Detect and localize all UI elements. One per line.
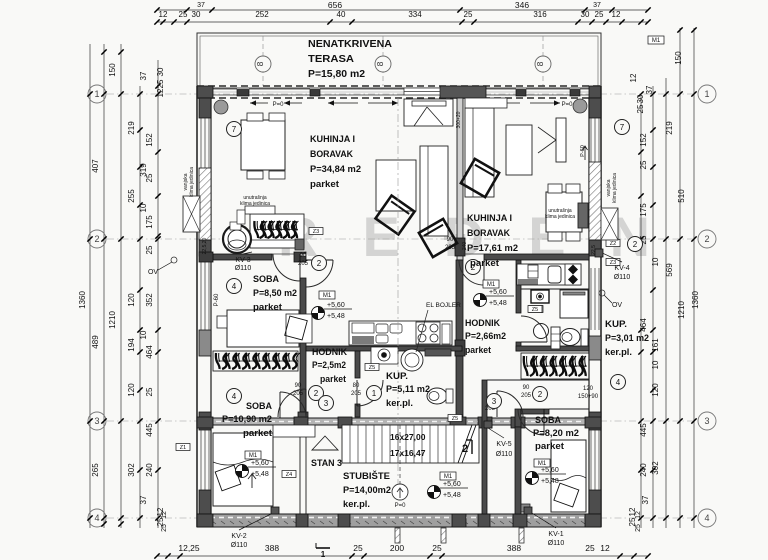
wall x355 kup left [355,351,360,378]
wall y345 left kup top [306,346,462,351]
shower right kup [560,290,588,318]
svg-text:120: 120 [127,383,136,397]
svg-text:EL BOJLER: EL BOJLER [426,302,461,309]
svg-text:656: 656 [328,0,342,10]
svg-text:4: 4 [232,282,237,291]
svg-text:P=8,50 m2: P=8,50 m2 [253,288,297,299]
svg-text:569: 569 [665,263,674,277]
svg-text:P=2,5m2: P=2,5m2 [312,360,346,371]
svg-text:2: 2 [538,390,543,399]
label box M1 [245,451,261,459]
svg-text:25: 25 [179,10,188,19]
svg-text:152: 152 [145,133,154,147]
svg-text:1: 1 [704,89,709,99]
grid bubble right 1 [698,85,716,103]
svg-text:205: 205 [293,391,304,397]
triangle (stan3 mark) [312,436,338,450]
label box M1 [648,36,664,44]
svg-text:P=2,66m2: P=2,66m2 [465,331,506,342]
grid axis dashed lines [107,93,694,95]
dining table left apartment [241,120,285,170]
svg-text:120: 120 [651,383,660,397]
svg-text:219: 219 [127,121,136,135]
door arc hall2 [497,391,523,417]
svg-text:205: 205 [351,391,362,397]
svg-text:30: 30 [581,10,590,19]
svg-text:25: 25 [595,10,604,19]
grid bubble left 1 [88,85,106,103]
armchairs left (rotated dark) [376,196,415,235]
svg-text:25: 25 [156,79,165,88]
wall x516 hodnik east [516,260,521,313]
bottom dimension row [157,555,648,557]
svg-text:ker.pl.: ker.pl. [343,499,370,510]
level marker [312,307,325,320]
svg-text:KUP.: KUP. [386,371,408,382]
svg-text:175: 175 [145,215,154,229]
svg-text:346: 346 [515,0,529,10]
svg-text:STUBIŠTE: STUBIŠTE [343,470,391,482]
section line vertical [397,98,399,423]
svg-text:90: 90 [295,383,302,389]
svg-text:+5,60: +5,60 [443,481,461,488]
washing machine [371,347,398,364]
svg-text:NENATKRIVENA: NENATKRIVENA [308,39,393,50]
svg-text:10: 10 [651,257,660,266]
TV unit left [404,99,453,126]
wall x515 soba west [515,409,521,427]
left dimension ticks [87,91,92,96]
wardrobe squiggle band left [213,351,298,371]
svg-text:90: 90 [300,253,307,259]
svg-text:90: 90 [523,385,530,391]
svg-text:205: 205 [521,393,532,399]
svg-text:25: 25 [639,160,648,169]
coffee table right [506,125,532,175]
svg-text:Ø110: Ø110 [231,542,248,549]
left outer wall [196,86,198,527]
svg-text:80: 80 [353,383,360,389]
svg-text:SOBA: SOBA [246,401,272,412]
grid bubble left 4 [88,509,106,527]
right wall windows [590,118,592,162]
svg-text:445: 445 [639,423,648,437]
svg-text:25: 25 [145,387,154,396]
svg-text:10: 10 [139,330,148,339]
svg-text:30: 30 [636,94,645,103]
TV right with bracket [556,118,566,162]
corner posts round [214,100,228,114]
label box Z4 [282,471,296,478]
svg-text:25: 25 [353,543,363,553]
svg-text:175: 175 [639,203,648,217]
svg-text:+5,60: +5,60 [251,460,269,467]
wall y409 soba top [521,409,549,414]
svg-text:10: 10 [139,203,148,212]
svg-text:510: 510 [677,189,686,203]
section mark 1 [316,547,330,549]
dimension lines: right column [693,28,695,528]
wall x300 (soba/hodnik divider) [300,278,306,412]
svg-text:316: 316 [533,10,547,19]
kitchen counter left (w/ KV-3) [250,214,304,248]
left kitchen row (KUHINJA along kup wall) [349,321,452,345]
svg-text:M1: M1 [487,282,496,288]
svg-text:P=8,20 m2: P=8,20 m2 [533,428,579,439]
svg-text:8: 8 [535,61,545,66]
svg-text:300+20: 300+20 [456,111,462,128]
wall y253 left (under kitchen/living) [213,254,272,260]
svg-text:klima jedinica: klima jedinica [189,167,195,197]
svg-text:P=17,61 m2: P=17,61 m2 [467,243,518,254]
svg-text:12: 12 [612,10,621,19]
grid bubble right 3 [698,412,716,430]
bed right bottom (SOBA 8,20) [551,440,586,512]
svg-text:464: 464 [639,318,648,332]
door arc soba1090 [278,389,306,417]
svg-text:252: 252 [255,10,269,19]
sofa right apartment [465,108,494,197]
armchair right (rotated dark) [461,159,499,197]
svg-text:P=5,11 m2: P=5,11 m2 [386,384,430,395]
label box M1 [319,291,335,299]
wardrobe hangers [524,356,528,376]
dimension lines: left column [89,44,91,528]
svg-text:7: 7 [232,125,237,134]
svg-text:40: 40 [337,10,346,19]
level marker [236,465,249,478]
svg-text:parket: parket [310,179,340,190]
svg-text:150: 150 [108,63,117,77]
label box Z5 [448,415,462,422]
wall y417-427 across [213,418,601,425]
svg-text:Ø110: Ø110 [614,274,631,281]
top dimension row 1 (656 / 346) [157,9,648,11]
svg-text:37: 37 [645,85,654,94]
svg-text:150: 150 [674,51,683,65]
svg-text:4: 4 [232,392,237,401]
svg-text:25: 25 [145,245,154,254]
svg-text:+5,60: +5,60 [541,467,559,474]
grid bubble left 2 [88,230,106,248]
svg-text:KV-3: KV-3 [235,257,250,264]
wall x482 stairs east [482,380,487,514]
level marker [526,472,539,485]
svg-text:Z3: Z3 [313,229,319,235]
svg-text:161: 161 [651,338,660,352]
svg-text:HODNIK: HODNIK [465,318,500,329]
svg-text:8: 8 [255,61,265,66]
door number bubbles [227,122,242,137]
wall y345 right [516,346,589,351]
svg-text:M1: M1 [323,293,332,299]
svg-text:Z1: Z1 [180,445,186,451]
svg-text:3: 3 [324,399,329,408]
stairs walk line [399,425,401,487]
svg-text:M1: M1 [444,474,453,480]
svg-text:194: 194 [127,338,136,352]
svg-text:25: 25 [161,524,168,532]
svg-text:334: 334 [408,10,422,19]
svg-text:STAN 3: STAN 3 [311,458,342,469]
svg-text:OV: OV [148,269,158,276]
svg-text:1: 1 [372,389,377,398]
toilet left kup [427,388,447,404]
svg-text:+5,48: +5,48 [251,471,269,478]
wall y260 right [484,254,589,260]
svg-text:25: 25 [636,104,645,113]
level marker [474,294,487,307]
svg-text:12: 12 [159,10,168,19]
svg-text:200: 200 [390,543,404,553]
svg-text:+5,48: +5,48 [541,478,559,485]
stairs [342,425,479,463]
svg-text:4: 4 [94,513,99,523]
svg-text:388: 388 [265,543,279,553]
svg-text:P=14,00m2: P=14,00m2 [343,485,391,496]
svg-text:KUHINJA I: KUHINJA I [467,213,512,224]
svg-text:parket: parket [470,258,500,269]
label box Z5 [365,364,379,371]
svg-text:1210: 1210 [677,301,686,319]
svg-text:1210: 1210 [108,311,117,329]
right closet squiggle band [521,353,589,379]
door arc kup right [521,316,547,342]
svg-text:KV-2: KV-2 [231,533,246,540]
svg-text:240: 240 [145,463,154,477]
central divider wall [457,98,463,260]
label box Z5 [529,306,543,313]
sill bars below bottom wall [395,528,400,543]
bed left middle (SOBA 8,50) [227,310,299,347]
label box M1 [440,472,456,480]
svg-text:3: 3 [94,416,99,426]
right kup toilet [560,329,580,346]
svg-text:TERASA: TERASA [308,54,355,65]
svg-text:P=34,84 m2: P=34,84 m2 [310,164,361,175]
svg-text:205: 205 [298,261,309,267]
svg-text:25: 25 [464,10,473,19]
KV duct boxes [595,249,603,257]
svg-text:12,25: 12,25 [178,543,200,553]
label box M1 [534,459,550,467]
svg-text:BORAVAK: BORAVAK [310,149,353,160]
svg-text:3: 3 [492,397,497,406]
svg-text:1: 1 [321,550,326,559]
svg-text:ker.pl.: ker.pl. [386,398,413,409]
label box M1 [483,280,499,288]
svg-text:Z2: Z2 [610,241,616,247]
klima unutrasnja left [245,206,275,214]
svg-text:Z5: Z5 [369,365,375,371]
kitchen cabinet [528,265,538,278]
coffee table left [376,160,416,211]
svg-text:25: 25 [635,524,642,532]
svg-text:4: 4 [704,513,709,523]
svg-text:parket: parket [535,441,565,452]
svg-text:klima jedinica: klima jedinica [545,214,575,220]
svg-text:7: 7 [620,123,625,132]
svg-text:+5,60: +5,60 [327,302,345,309]
svg-text:12: 12 [600,543,610,553]
svg-text:+5,48: +5,48 [489,300,507,307]
duct box right bottom [521,504,530,512]
label box Z1 [176,444,190,451]
svg-text:3: 3 [704,416,709,426]
sofa left [420,146,448,236]
svg-text:37: 37 [197,2,205,9]
svg-text:120: 120 [583,386,594,392]
wall y380 right closet bottom [487,379,589,381]
svg-text:25: 25 [432,543,442,553]
svg-text:KV-1: KV-1 [548,531,563,538]
grid bubble right 4 [698,509,716,527]
svg-text:2: 2 [633,240,638,249]
svg-text:37: 37 [139,495,148,504]
KV-3 fixture [223,225,251,253]
svg-text:parket: parket [253,302,283,313]
svg-text:Ø110: Ø110 [235,265,252,272]
svg-text:17x16,47: 17x16,47 [390,448,426,458]
svg-text:P-60: P-60 [214,293,220,306]
top wall windows [213,88,237,90]
svg-text:KUP.: KUP. [605,319,627,330]
door arc hodnik left [306,260,333,287]
right kup cabinet [551,327,560,349]
svg-text:Z5: Z5 [532,307,538,313]
svg-text:302: 302 [651,461,660,475]
top wall slide arrows [250,102,268,104]
svg-text:2: 2 [317,259,322,268]
svg-text:P=0: P=0 [562,102,574,108]
svg-text:12: 12 [161,511,168,519]
svg-text:2: 2 [314,389,319,398]
svg-text:P=3,01 m2: P=3,01 m2 [605,333,649,344]
svg-text:klima jedinica: klima jedinica [612,173,618,203]
svg-text:M1: M1 [249,453,258,459]
svg-text:37: 37 [641,495,650,504]
svg-text:205: 205 [445,245,456,251]
svg-text:407: 407 [91,159,100,173]
svg-text:152: 152 [639,133,648,147]
grid bubble left 3 [88,412,106,430]
svg-text:352: 352 [145,293,154,307]
svg-text:37: 37 [139,71,148,80]
svg-text:P=10,90 m2: P=10,90 m2 [222,414,272,425]
label box Z3 [606,259,620,266]
svg-text:ker.pl.: ker.pl. [605,347,632,358]
svg-text:KUHINJA I: KUHINJA I [310,134,355,145]
svg-text:16x27,00: 16x27,00 [390,432,426,442]
svg-text:Z5: Z5 [452,416,458,422]
door arc stan3 [280,392,306,418]
dark shelf bar [425,349,451,356]
svg-text:Ø110: Ø110 [548,540,565,547]
grid bubble right 2 [698,230,716,248]
svg-text:P=15,80 m2: P=15,80 m2 [308,69,365,80]
el bojler circle [401,349,423,371]
door arc hodnik right [459,260,484,285]
svg-text:SOBA: SOBA [253,274,279,285]
wardrobe hangers [216,353,220,369]
bottom wall gray band [197,514,601,527]
nightstand bottom left room [273,425,315,437]
comb hatch left of counter [519,279,537,285]
label box Z3 [309,228,323,235]
svg-text:2: 2 [462,443,468,455]
svg-text:M1: M1 [538,461,547,467]
svg-text:1: 1 [94,89,99,99]
wall y288 right kitchen bottom [521,288,589,290]
svg-text:2: 2 [94,234,99,244]
svg-text:90: 90 [447,237,454,243]
svg-text:Z4: Z4 [286,472,292,478]
svg-text:219: 219 [665,121,674,135]
right dimension ticks [677,27,682,32]
svg-text:KV-4: KV-4 [614,265,629,272]
label box Z2 [606,240,620,247]
svg-text:255: 255 [127,189,136,203]
svg-text:12: 12 [635,511,642,519]
svg-text:25: 25 [585,543,595,553]
door arc soba820 [518,409,544,435]
terrace outline [197,33,601,88]
svg-text:+5,48: +5,48 [443,492,461,499]
svg-text:P=0: P=0 [273,102,285,108]
stove 4 burners [416,322,440,344]
svg-text:1360: 1360 [78,291,87,309]
right outer wall [600,86,602,527]
svg-text:klima jedinica: klima jedinica [240,201,270,207]
kitchen right band [517,264,581,285]
top wall piers [197,86,213,98]
level marker [428,486,441,499]
bed left bottom (SOBA 10,90) [213,433,273,506]
svg-text:BORAVAK: BORAVAK [467,228,510,239]
left wall windows [200,118,202,168]
svg-text:1360: 1360 [691,291,700,309]
svg-text:12: 12 [629,73,638,82]
svg-text:388: 388 [507,543,521,553]
svg-text:parket: parket [465,345,492,356]
washing machine right [531,290,549,303]
sink double left kitchen [376,324,388,333]
klima right dark box [578,203,588,228]
svg-text:30: 30 [156,67,165,76]
main top wall [197,85,601,87]
svg-text:+5,60: +5,60 [489,289,507,296]
label box Z5 [528,306,542,313]
svg-text:P=0: P=0 [395,503,407,509]
door arc kup left [357,380,383,406]
svg-text:KV-5: KV-5 [496,441,511,448]
svg-text:302: 302 [127,463,136,477]
right kup sink [534,324,549,339]
svg-text:12: 12 [156,88,165,97]
svg-text:445: 445 [145,423,154,437]
svg-text:489: 489 [91,335,100,349]
svg-text:22,5,20: 22,5,20 [202,237,208,254]
door arc soba850 [273,254,300,281]
svg-text:HODNIK: HODNIK [312,347,347,358]
svg-text:2: 2 [704,234,709,244]
svg-text:120: 120 [127,293,136,307]
stairs break line [458,425,472,463]
svg-text:SOBA: SOBA [535,415,561,426]
svg-text:Ø110: Ø110 [496,451,513,458]
svg-text:8: 8 [375,61,385,66]
kitchen sink right [548,266,561,283]
